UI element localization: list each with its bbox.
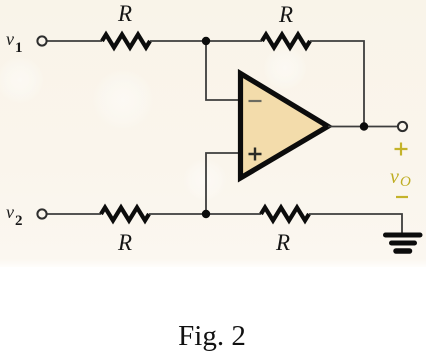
op-amp plus input mark bbox=[249, 148, 262, 161]
resistor R4 (bottom-right) bbox=[261, 208, 309, 221]
op-amp minus input mark bbox=[249, 100, 262, 102]
svg-text:R: R bbox=[117, 1, 132, 26]
wire v1 terminal to resistor R1 bbox=[46, 40, 102, 42]
svg-text:O: O bbox=[400, 174, 411, 190]
svg-text:Fig. 2: Fig. 2 bbox=[178, 320, 246, 352]
svg-text:v: v bbox=[6, 202, 14, 222]
ground bbox=[386, 233, 421, 238]
svg-text:R: R bbox=[117, 230, 132, 255]
svg-text:R: R bbox=[278, 2, 293, 27]
svg-text:2: 2 bbox=[15, 213, 23, 229]
terminal circle v1 bbox=[37, 36, 46, 45]
wire R3 to node B bbox=[149, 213, 206, 215]
wire node B up to non-inverting input bbox=[206, 153, 240, 214]
wire node A down to inverting input bbox=[206, 41, 240, 100]
svg-text:v: v bbox=[6, 29, 14, 49]
wire op-amp output to terminal bbox=[328, 126, 398, 128]
op-amp U1 bbox=[241, 74, 329, 179]
resistor R3 (bottom-left) bbox=[101, 208, 149, 221]
wire R2 to feedback corner bbox=[310, 41, 364, 127]
output terminal circle bbox=[398, 122, 407, 131]
paper background of schematic bbox=[0, 0, 426, 267]
label + (output polarity) bbox=[395, 143, 408, 156]
wire node B to resistor R4 bbox=[206, 213, 261, 215]
svg-text:R: R bbox=[275, 230, 290, 255]
svg-text:1: 1 bbox=[15, 40, 23, 56]
output junction dot bbox=[360, 122, 368, 130]
svg-text:v: v bbox=[390, 166, 399, 188]
wire R1 to node A bbox=[150, 40, 206, 42]
node A junction dot bbox=[202, 37, 210, 45]
wire v2 terminal to resistor R3 bbox=[46, 213, 101, 215]
terminal circle v2 bbox=[37, 209, 46, 218]
resistor R1 (top-left) bbox=[102, 35, 150, 48]
label - (output polarity) bbox=[396, 196, 408, 198]
wire R4 to ground corner bbox=[309, 214, 402, 234]
node B junction dot bbox=[202, 210, 210, 218]
wire node A to resistor R2 bbox=[206, 40, 262, 42]
resistor R2 (top-right feedback) bbox=[262, 35, 310, 48]
